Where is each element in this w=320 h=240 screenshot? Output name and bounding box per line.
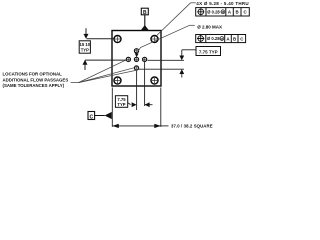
svg-text:7.75 TYP: 7.75 TYP [199,49,218,54]
svg-text:C: C [89,114,93,120]
svg-text:15 10: 15 10 [80,42,91,47]
svg-text:37.0 / 38.2 SQUARE: 37.0 / 38.2 SQUARE [171,123,213,128]
svg-text:TYP: TYP [117,102,125,107]
svg-text:B: B [236,10,239,15]
svg-text:Ø 2.80 MAX: Ø 2.80 MAX [197,24,222,29]
svg-text:Ø 0.28: Ø 0.28 [207,36,220,41]
svg-text:(SAME TOLERANCES APPLY): (SAME TOLERANCES APPLY) [3,83,65,88]
svg-text:LOCATIONS FOR OPTIONAL: LOCATIONS FOR OPTIONAL [3,72,63,77]
svg-text:ADDITIONAL FLOW PASSAGES: ADDITIONAL FLOW PASSAGES [3,77,69,82]
svg-text:4X Ø 5.28 - 5.40 THRU: 4X Ø 5.28 - 5.40 THRU [196,1,249,6]
svg-text:B: B [233,36,236,41]
svg-text:TYP: TYP [81,48,89,53]
svg-text:Ø 0.28: Ø 0.28 [207,10,220,15]
